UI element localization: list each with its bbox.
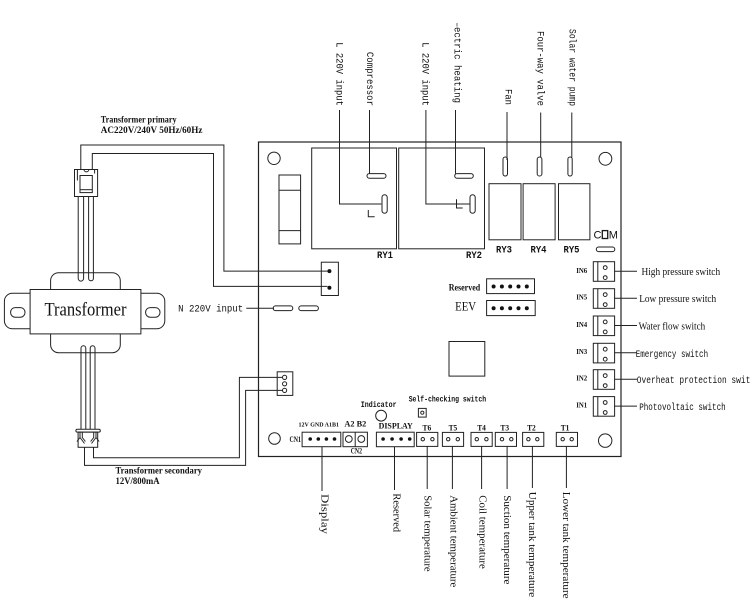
wire IN3 to label — [614, 352, 637, 354]
relay RY4 — [523, 184, 555, 240]
svg-text:Transformer secondary: Transformer secondary — [116, 467, 203, 477]
Reserved connector — [487, 279, 535, 294]
svg-text:C: C — [594, 230, 602, 242]
secondary plug connector — [76, 429, 100, 447]
svg-text:IN1: IN1 — [576, 401, 587, 410]
fuse F1 — [279, 175, 301, 244]
self-checking switch body — [418, 408, 426, 417]
wire IN4 to label — [614, 325, 637, 327]
svg-text:Display: Display — [318, 494, 330, 535]
wire N input to pad — [246, 307, 274, 309]
primary wire A — [81, 145, 328, 271]
svg-text:IN5: IN5 — [576, 293, 587, 302]
mounting hole top-left — [268, 152, 280, 164]
mounting hole bottom-right — [599, 434, 612, 447]
T3 connector — [495, 432, 516, 446]
RY1 L mark — [368, 210, 374, 217]
svg-text:T1: T1 — [561, 424, 570, 433]
relay RY1 — [312, 148, 397, 249]
svg-text:12V GND A1B1: 12V GND A1B1 — [299, 421, 340, 428]
relay RY2 — [399, 148, 485, 249]
RY1 terminal pad horizontal — [367, 174, 386, 179]
svg-text:RY3: RY3 — [496, 246, 512, 257]
IN5 connector — [593, 289, 614, 309]
svg-text:Photovoltaic switch: Photovoltaic switch — [639, 402, 726, 414]
board outline — [259, 142, 622, 457]
svg-text:IN4: IN4 — [576, 320, 587, 329]
svg-text:Transformer: Transformer — [45, 300, 128, 321]
transformer body — [30, 290, 141, 334]
svg-text:Compressor: Compressor — [363, 52, 374, 106]
svg-text:Indicator: Indicator — [361, 400, 397, 410]
secondary wire right — [94, 377, 283, 457]
mounting hole bottom-left — [269, 433, 281, 445]
T6 connector — [417, 432, 438, 446]
svg-text:Lower tank temperature: Lower tank temperature — [560, 492, 572, 599]
T5 connector — [442, 432, 463, 446]
Electric heating label (clipped) — [451, 23, 463, 103]
COM label — [594, 230, 618, 242]
primary wire B — [92, 154, 327, 287]
T1 connector — [556, 432, 577, 446]
svg-text:IN3: IN3 — [576, 347, 587, 356]
wire T1 to Lower tank temperature — [565, 446, 567, 488]
transformer bottom hump — [51, 334, 121, 353]
EEV connector — [487, 301, 536, 316]
svg-text:RY2: RY2 — [466, 251, 482, 262]
svg-text:RY5: RY5 — [564, 246, 580, 257]
T2 connector — [523, 432, 544, 446]
svg-text:CN2: CN2 — [351, 446, 362, 455]
svg-text:12V/800mA: 12V/800mA — [116, 477, 160, 487]
svg-text:IN2: IN2 — [576, 374, 587, 383]
wire T5 to Ambient temperature — [451, 446, 453, 489]
wire L220V input to RY2 — [426, 110, 470, 204]
transformer right ear — [141, 293, 165, 329]
svg-text:Solar temperature: Solar temperature — [421, 495, 433, 572]
wire IN5 to label — [614, 297, 637, 299]
3-pin secondary connector — [277, 372, 293, 396]
wire CN1 to Display label — [321, 447, 323, 491]
svg-text:Low pressure switch: Low pressure switch — [639, 293, 716, 305]
DISPLAY connector — [376, 432, 414, 447]
svg-text:T4: T4 — [477, 424, 486, 433]
wire Solar water pump to RY5 pad — [571, 113, 573, 158]
wire T2 to Upper tank temperature — [531, 446, 533, 488]
svg-text:RY1: RY1 — [377, 251, 393, 262]
IN4 connector — [593, 316, 614, 336]
svg-text:EEV: EEV — [455, 299, 476, 314]
svg-text:Four-way valve: Four-way valve — [534, 31, 546, 106]
wire L220V input to RY1 — [340, 110, 382, 204]
svg-text:Ambient temperature: Ambient temperature — [447, 495, 459, 587]
svg-text:Upper tank temperature: Upper tank temperature — [526, 492, 538, 598]
wire Compressor to RY1 pad — [369, 110, 371, 174]
svg-text:Water flow switch: Water flow switch — [639, 321, 706, 333]
svg-text:Fan: Fan — [502, 89, 513, 105]
svg-text:Transformer primary: Transformer primary — [101, 116, 177, 126]
wire IN2 to label — [614, 378, 637, 380]
svg-text:ectric heating: ectric heating — [451, 27, 463, 103]
svg-text:L 220V input: L 220V input — [419, 42, 431, 106]
transformer top hump — [51, 273, 121, 290]
wire Electric heating to RY2 pad — [455, 110, 457, 174]
plug to transformer wires — [78, 197, 93, 282]
svg-text:T2: T2 — [527, 424, 536, 433]
N 220V input pad 1 — [273, 306, 293, 311]
IN2 connector — [593, 370, 614, 390]
relay RY3 — [489, 184, 521, 240]
svg-text:Solar water pump: Solar water pump — [566, 29, 578, 106]
CN2 connector — [343, 432, 367, 447]
RY3 pad — [503, 157, 508, 176]
svg-text:High pressure switch: High pressure switch — [642, 266, 721, 278]
wire T4 to Coil temperature — [481, 446, 483, 489]
RY2 terminal pad vertical — [470, 195, 475, 214]
svg-text:T3: T3 — [500, 424, 509, 433]
T4 connector — [471, 432, 492, 446]
svg-text:Reserved: Reserved — [449, 283, 481, 293]
wire Fan to RY3 pad — [506, 112, 508, 160]
indicator LED circle — [376, 410, 387, 421]
CN1 connector — [302, 432, 341, 447]
svg-text:Coil temperature: Coil temperature — [477, 495, 489, 569]
relay RY5 — [559, 184, 590, 240]
svg-text:DISPLAY: DISPLAY — [379, 422, 413, 431]
svg-text:AC220V/240V 50Hz/60Hz: AC220V/240V 50Hz/60Hz — [101, 126, 203, 136]
mounting hole top-right — [599, 152, 612, 165]
svg-text:L 220V input: L 220V input — [332, 42, 344, 106]
svg-text:T6: T6 — [423, 424, 432, 433]
RY1 terminal pad vertical — [382, 195, 387, 214]
svg-text:Overheat protection switch: Overheat protection switch — [637, 375, 750, 387]
RY5 pad — [568, 157, 572, 176]
secondary wire left — [85, 390, 283, 465]
wire T6 to Solar temperature — [426, 446, 428, 489]
IN1 connector — [593, 397, 614, 417]
wire T3 to Suction temperature — [506, 446, 508, 489]
svg-text:RY4: RY4 — [531, 246, 547, 257]
svg-text:A2 B2: A2 B2 — [344, 418, 366, 428]
COM pad — [596, 247, 615, 252]
svg-text:CN1: CN1 — [290, 435, 302, 444]
2-pin AC input connector — [321, 262, 338, 295]
wire IN6 to label — [614, 270, 637, 272]
wire DISPLAY to Reserved label — [394, 447, 396, 490]
svg-text:Suction temperature: Suction temperature — [501, 495, 513, 584]
svg-text:Emergency switch: Emergency switch — [636, 349, 708, 361]
transformer left ear — [4, 293, 30, 329]
svg-text:Self-checking switch: Self-checking switch — [409, 394, 486, 404]
MCU square U1 — [449, 342, 485, 377]
IN3 connector — [593, 343, 614, 363]
svg-text:N 220V input: N 220V input — [178, 304, 243, 316]
svg-text:IN6: IN6 — [576, 266, 587, 275]
RY4 pad — [537, 157, 542, 176]
IN6 connector — [593, 262, 614, 282]
svg-text:M: M — [609, 230, 618, 242]
RY2 L mark — [457, 199, 463, 208]
svg-text:T5: T5 — [449, 424, 458, 433]
svg-text:Reserved: Reserved — [390, 493, 402, 532]
wire IN1 to label — [614, 405, 637, 407]
primary plug connector — [75, 170, 98, 197]
wire Four-way valve to RY4 pad — [540, 113, 542, 158]
RY2 terminal pad horizontal — [455, 174, 474, 179]
secondary wires from transformer — [81, 346, 95, 430]
N 220V input pad 2 — [299, 306, 319, 311]
